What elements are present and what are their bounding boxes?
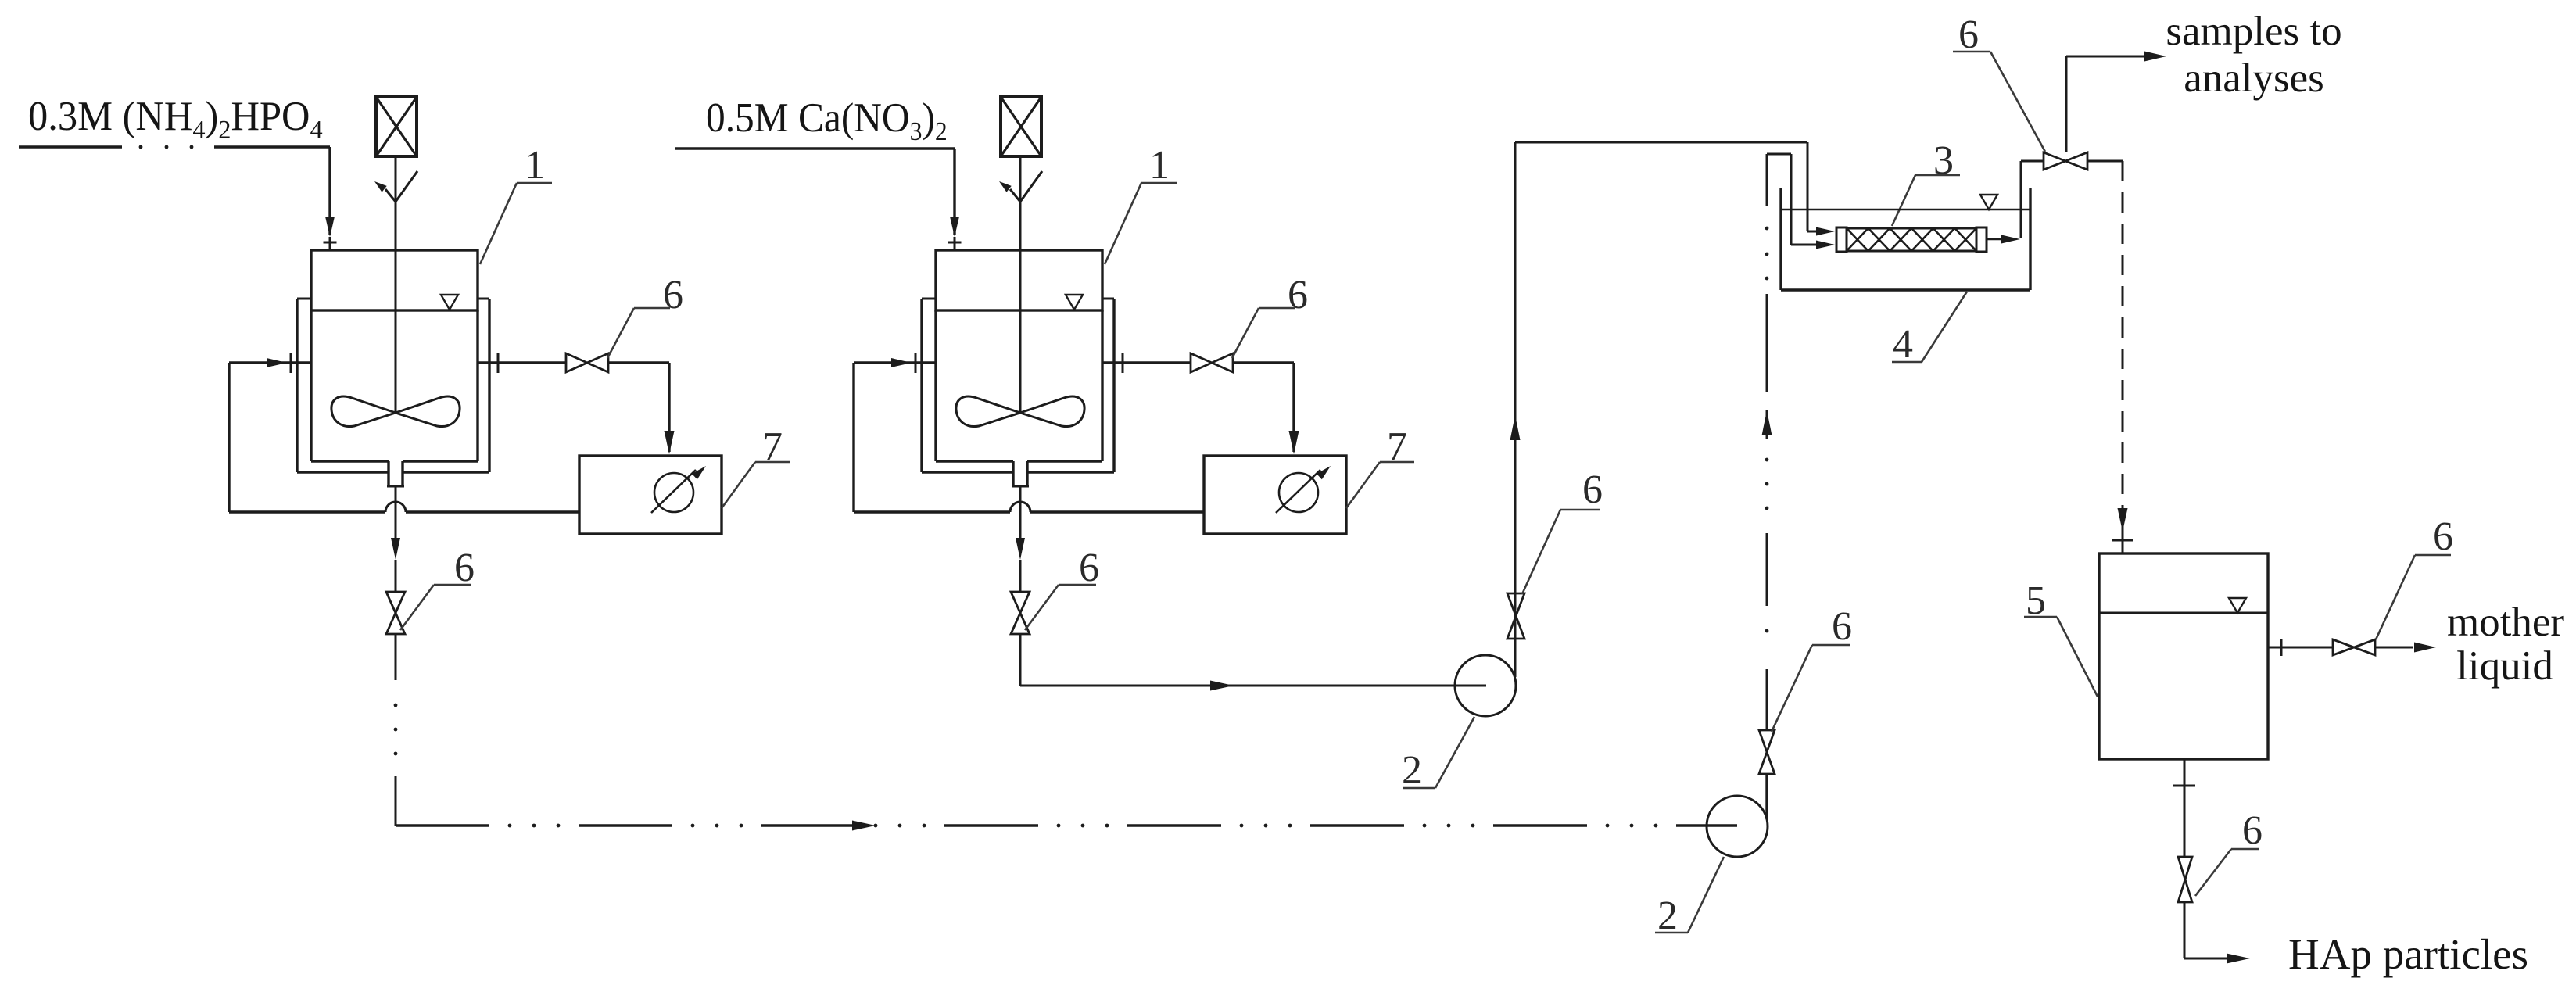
label 7 right [1346, 424, 1414, 508]
dashed line sampling valve to tank 5 [2112, 161, 2133, 553]
jacket of reactor 1 (right) [922, 299, 1114, 472]
liquid level mark reactor 1 (right) [1066, 295, 1083, 310]
label 1 reactor 1 (right) [1105, 143, 1177, 264]
svg-text:liquid: liquid [2456, 643, 2553, 689]
transfer line reactor 1 (right) to pump 2 (solid) [1020, 634, 1486, 691]
label 6 outlet valve reactor 1 (right) [1232, 273, 1308, 358]
samples take-off line [2066, 52, 2166, 153]
valve 6 outlet reactor 1 (right) [1191, 353, 1233, 372]
valve 6 mother liquid [2333, 639, 2375, 655]
svg-text:samples to: samples to [2166, 9, 2341, 54]
feed line 0.5M Ca(NO3)2 into reactor 1 (right) [675, 149, 962, 250]
flowmeter 7 left [579, 456, 722, 534]
stirrer shaft with rotation arrow reactor 1 (left) [374, 156, 417, 414]
tank 4 (mixer trough) [1781, 188, 2030, 290]
svg-text:4: 4 [1893, 322, 1913, 367]
label 6 HAp valve [2195, 808, 2263, 896]
svg-text:HAp particles: HAp particles [2288, 930, 2528, 978]
stirrer shaft with rotation arrow reactor 1 (right) [999, 156, 1042, 414]
label 6 drain valve reactor 1 (left) [400, 546, 475, 630]
outlet line reactor 1 (right) to valve [1102, 353, 1299, 454]
svg-text:6: 6 [1582, 467, 1603, 512]
svg-text:1: 1 [1149, 143, 1170, 188]
riser line pump to static mixer (solid) [1510, 142, 1836, 677]
svg-text:0.5M Ca(NO3)2: 0.5M Ca(NO3)2 [706, 95, 948, 146]
transfer line reactor 1 (left) to pump 2 (dash-dot) [394, 634, 1737, 831]
svg-text:6: 6 [663, 273, 683, 317]
valve 6 on riser (lower pump) [1759, 730, 1775, 774]
liquid level line tank 4 [1781, 195, 2030, 210]
impeller reactor 1 (left) [331, 396, 460, 426]
label 1 reactor 1 (left) [480, 143, 552, 264]
svg-text:6: 6 [1288, 273, 1308, 317]
valve 6 outlet reactor 1 (left) [566, 353, 608, 372]
valve 6 on riser (upper pump) [1507, 593, 1524, 639]
svg-text:3: 3 [1933, 138, 1954, 183]
static mixer 3 [1836, 227, 1987, 252]
label 0.3M (NH4)2HPO4 [28, 94, 323, 145]
svg-text:6: 6 [1832, 604, 1852, 649]
static mixer outlet arrow [1987, 235, 2020, 244]
HAp particles outlet line [2173, 759, 2250, 964]
mother liquid outlet line [2268, 639, 2436, 656]
label samples to analyses [2166, 9, 2341, 101]
jacket of reactor 1 (left) [297, 299, 489, 472]
dash-dot riser lower pump to static mixer [1762, 154, 1836, 819]
valve 6 sampling [2044, 152, 2087, 170]
valve 6 HAp outlet [2178, 857, 2192, 902]
label mother liquid [2447, 600, 2564, 689]
settling tank 5 [2099, 553, 2268, 759]
feed line 0.3M (NH4)2HPO4 into reactor 1 (left) [19, 145, 337, 250]
drain line reactor 1 (left) [387, 485, 404, 592]
impeller reactor 1 (right) [956, 396, 1084, 426]
svg-text:6: 6 [454, 546, 475, 590]
svg-text:6: 6 [1958, 13, 1979, 57]
svg-text:analyses: analyses [2184, 56, 2324, 101]
label 2 upper pump [1402, 717, 1474, 793]
label 6 outlet valve reactor 1 (left) [607, 273, 683, 358]
pump 2 (upper centrifugal pump) [1455, 655, 1516, 716]
recirculation line reactor 1 (right) [854, 353, 1204, 512]
label 6 riser valve (lower pump) [1772, 604, 1852, 732]
label 6 mother liquid valve [2376, 514, 2453, 639]
label 0.5M Ca(NO3)2 [706, 95, 948, 146]
svg-text:6: 6 [1079, 546, 1099, 590]
svg-text:6: 6 [2242, 808, 2263, 853]
label 6 drain valve reactor 1 (right) [1025, 546, 1099, 630]
reactor vessel 1 (left) (stirred tank 1) [311, 250, 478, 485]
valve 6 drain reactor 1 (right) [1011, 592, 1030, 634]
label 6 riser valve (upper pump) [1522, 467, 1603, 594]
label 7 left [722, 424, 790, 508]
label 5 tank [2024, 578, 2098, 697]
label 2 lower pump [1655, 857, 1724, 938]
liquid level mark reactor 1 (left) [441, 295, 458, 310]
recirculation line reactor 1 (left) [229, 353, 579, 512]
valve 6 drain reactor 1 (left) [386, 592, 405, 634]
reactor vessel 1 (right) (stirred tank 1) [936, 250, 1102, 485]
outlet pipe tank 4 to sampling valve [2021, 161, 2123, 238]
flowmeter 7 right [1204, 456, 1346, 534]
svg-text:2: 2 [1402, 748, 1422, 793]
label 3 static mixer [1892, 138, 1960, 226]
motor (stirrer drive) reactor 1 (left) [376, 97, 417, 156]
drain line reactor 1 (right) [1012, 485, 1029, 592]
label 6 sampling valve [1953, 13, 2045, 152]
label 4 tank [1892, 292, 1967, 367]
svg-text:2: 2 [1657, 894, 1678, 938]
liquid level mark tank 5 [2229, 598, 2246, 613]
svg-text:6: 6 [2433, 514, 2453, 559]
svg-text:mother: mother [2447, 600, 2564, 645]
pump 2 (lower centrifugal pump) [1707, 796, 1768, 857]
svg-text:0.3M (NH4)2HPO4: 0.3M (NH4)2HPO4 [28, 94, 323, 145]
outlet line reactor 1 (left) to valve [478, 353, 675, 454]
label HAp particles [2288, 930, 2528, 978]
motor (stirrer drive) reactor 1 (right) [1001, 97, 1041, 156]
svg-text:1: 1 [525, 143, 545, 188]
